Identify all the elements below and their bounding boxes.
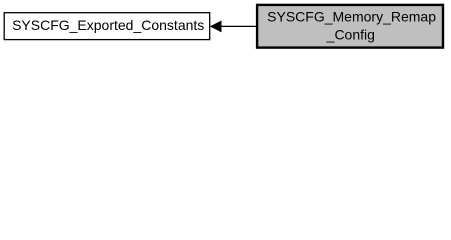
svg-text:SYSCFG_Exported_Constants: SYSCFG_Exported_Constants [12, 17, 204, 33]
arrowhead [211, 21, 221, 31]
svg-text:SYSCFG_Memory_Remap: SYSCFG_Memory_Remap [267, 8, 436, 24]
node SYSCFG_Memory_Remap_Config (current) [257, 5, 443, 48]
svg-text:_Config: _Config [326, 26, 375, 42]
edge arrow SYSCFG_Memory_Remap_Config -> SYSCFG_Exported_Constants [211, 21, 257, 31]
wire [221, 25, 257, 27]
node SYSCFG_Exported_Constants [4, 13, 210, 40]
